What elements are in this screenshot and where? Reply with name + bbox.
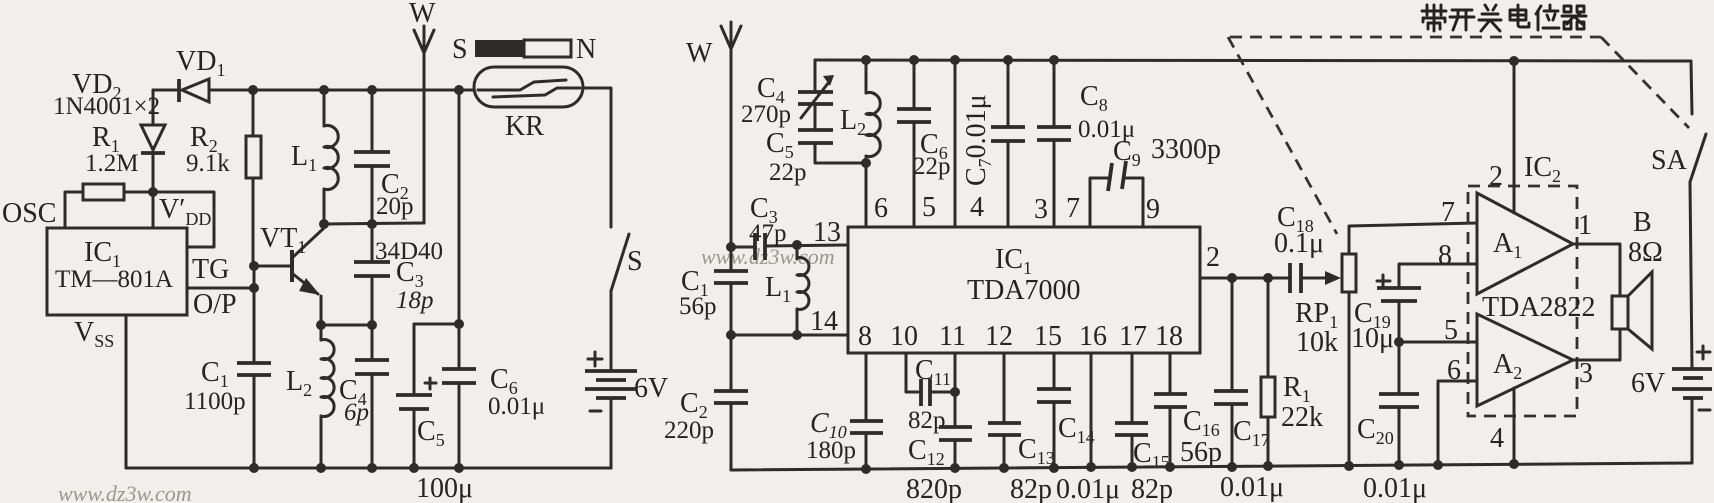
svg-text:0.01μ: 0.01μ (1056, 474, 1120, 503)
svg-text:22p: 22p (769, 159, 807, 186)
wire: ground rail (right circuit) (731, 463, 1692, 470)
svg-text:0.01μ: 0.01μ (488, 393, 545, 420)
svg-text:82p: 82p (908, 407, 946, 434)
svg-text:2: 2 (1206, 242, 1220, 273)
svg-text:8: 8 (858, 321, 872, 352)
wire: decoupling branch (414, 323, 459, 326)
junction tank bottom/pin6 (861, 158, 871, 168)
junction ground/C4 (367, 463, 377, 473)
svg-text:220p: 220p (664, 417, 714, 444)
capacitor C1 right (56p) (714, 247, 748, 335)
wire: pin 2 output wire (1200, 277, 1288, 280)
wire: pin 3 to speaker (1573, 329, 1620, 360)
junction collector/L1 (319, 219, 329, 229)
wire: collector tank wire (324, 223, 424, 224)
svg-text:11: 11 (939, 321, 966, 352)
junction rail/supply column (454, 85, 464, 95)
svg-text:5: 5 (922, 192, 936, 223)
svg-text:0.1μ: 0.1μ (1274, 228, 1324, 259)
junction ground/L2 (316, 463, 326, 473)
svg-text:4: 4 (1490, 423, 1504, 454)
svg-text:22k: 22k (1281, 402, 1323, 433)
wire: pin 6 wire (IC2) (1438, 381, 1477, 465)
svg-text:7: 7 (1441, 197, 1455, 228)
wire: KR to switch branch (583, 88, 611, 227)
junction pin2/R1 (1263, 273, 1273, 283)
svg-text:180p: 180p (806, 437, 856, 464)
junction ground/C6 (454, 463, 464, 473)
svg-text:12: 12 (985, 321, 1013, 352)
junction emitter/C3/C4 (367, 320, 377, 330)
diode VD2 (141, 90, 165, 192)
svg-text:TG: TG (192, 254, 229, 285)
inductor L1 (left) (324, 90, 338, 224)
junction ground/C1 (249, 463, 259, 473)
svg-text:8: 8 (1438, 240, 1452, 271)
capacitor C9 (3300p) loop pins 7-9 (1090, 161, 1143, 227)
svg-text:8Ω: 8Ω (1628, 237, 1663, 268)
junction ground/C5 (409, 463, 419, 473)
svg-text:6p: 6p (344, 399, 369, 426)
wire: VD2 branch top (153, 89, 178, 92)
svg-text:N: N (576, 34, 596, 65)
svg-text:10: 10 (890, 321, 918, 352)
svg-text:3300p: 3300p (1151, 134, 1221, 165)
svg-text:9: 9 (1146, 194, 1160, 225)
capacitor C16 (56p) (1154, 353, 1187, 466)
capacitor C12 (820p) (939, 353, 972, 468)
wire: ground rail (left circuit) (126, 467, 611, 470)
capacitor C2 (20p) (354, 90, 390, 224)
wire: pin 2 (IC2) from supply (1513, 61, 1516, 213)
svg-text:56p: 56p (679, 293, 717, 320)
junction ground/C12 (950, 463, 960, 473)
svg-text:4: 4 (970, 192, 984, 223)
junction tank/C6 (909, 55, 919, 65)
svg-text:S: S (627, 246, 643, 277)
capacitor C15 (82p) (1115, 353, 1148, 467)
capacitor C18 (0.1u) (1290, 263, 1341, 293)
wire: pin 14 wire (731, 334, 846, 337)
svg-text:3: 3 (1034, 194, 1048, 225)
svg-text:820p: 820p (906, 474, 962, 503)
potentiometer RP1 (10k) (1342, 223, 1477, 466)
svg-text:W: W (409, 0, 436, 29)
Chinese title: dai kai guan dian wei qi (1422, 5, 1586, 31)
wire: pin 6 wire (865, 163, 868, 227)
junction tank/L2 top (861, 55, 871, 65)
svg-text:16: 16 (1079, 321, 1107, 352)
diode VD1 (179, 79, 209, 102)
junction C11/pin11 (950, 387, 960, 397)
IC U1 TDA7000 box (848, 227, 1200, 353)
svg-text:TDA2822: TDA2822 (1482, 292, 1596, 323)
svg-text:B: B (1633, 207, 1652, 238)
svg-text:SA: SA (1651, 145, 1688, 176)
svg-text:14: 14 (810, 306, 838, 337)
capacitor C10 (180p) (850, 353, 883, 469)
junction decouple/supply column (454, 319, 464, 329)
capacitor C20 (0.01u) (1379, 342, 1419, 465)
junction output node (249, 283, 259, 293)
junction tank/pin4 (950, 55, 960, 65)
wire: node to VT1 base (254, 265, 291, 268)
svg-text:W: W (686, 38, 713, 69)
capacitor C5 (100u electrolytic) (396, 324, 436, 468)
svg-text:S: S (452, 34, 468, 65)
junction ground/C10 (861, 464, 871, 474)
svg-text:100μ: 100μ (416, 473, 473, 503)
svg-text:5: 5 (1444, 315, 1458, 346)
svg-text:270p: 270p (741, 101, 791, 128)
svg-text:47p: 47p (749, 220, 787, 247)
svg-text:6: 6 (874, 193, 888, 224)
switch SA (1690, 61, 1706, 368)
capacitor C2 right (220p) (714, 335, 748, 470)
svg-text:C70.01μ: C70.01μ (961, 94, 995, 186)
svg-text:82p: 82p (1010, 474, 1052, 503)
resistor R1 right (22k) (1261, 278, 1275, 466)
capacitor C6 right (22p) (897, 60, 931, 227)
svg-text:0.01μ: 0.01μ (1363, 473, 1427, 503)
junction ground/R1 right (1263, 461, 1273, 471)
svg-text:O/P: O/P (193, 289, 237, 320)
capacitor C4 right variable (270p) + C5 right (22p) (798, 60, 866, 163)
battery 6V (left) (585, 291, 637, 468)
capacitor C6 (0.01u left) (442, 90, 476, 468)
magnet S/N bar (475, 40, 571, 57)
svg-text:10μ: 10μ (1351, 323, 1394, 354)
svg-text:9.1k: 9.1k (186, 150, 230, 177)
speaker B (8 ohm) (1612, 272, 1652, 349)
wire: pin 16 ground wire (1090, 353, 1093, 467)
svg-text:3: 3 (1579, 358, 1593, 389)
battery 6V (right) (1672, 346, 1712, 463)
svg-text:1.2M: 1.2M (85, 150, 138, 177)
junction L1/pin14 wire (792, 330, 802, 340)
capacitor C17 (0.01u) (1214, 278, 1248, 467)
svg-text:10k: 10k (1296, 327, 1338, 358)
capacitor C3 right (47p) (731, 233, 846, 260)
svg-text:15: 15 (1034, 321, 1062, 352)
junction at VD2/R1/VDD (148, 187, 158, 197)
junction ground/pin4 IC2 (1509, 459, 1519, 469)
svg-text:18: 18 (1155, 321, 1183, 352)
junction rail/L1 (319, 85, 329, 95)
junction ground/C17 (1227, 462, 1237, 472)
switch S (611, 234, 629, 291)
inductor L2 (left) (321, 325, 334, 468)
wire: pin 4 wire (954, 60, 957, 227)
junction ground/C14 (1049, 463, 1059, 473)
junction base node (249, 261, 259, 271)
junction C1/pin14 (726, 330, 736, 340)
capacitor C1 (1100p) (237, 363, 271, 468)
wire: emitter rail (321, 324, 372, 327)
svg-text:0.01μ: 0.01μ (1220, 472, 1284, 503)
junction tank/C8 (1049, 55, 1059, 65)
wire: tank top rail (right) (815, 60, 1691, 61)
junction ground/C13 (999, 463, 1009, 473)
svg-text:18p: 18p (396, 287, 434, 314)
junction rail/R2 (248, 85, 258, 95)
svg-text:20p: 20p (376, 193, 414, 220)
junction tank/C7 (1003, 55, 1013, 65)
resistor R1 (65, 184, 153, 228)
svg-text:82p: 82p (1131, 474, 1173, 503)
resistor R2 (246, 90, 261, 266)
wire: node down to C1 (253, 266, 256, 362)
junction emitter/L2 (316, 320, 326, 330)
svg-text:56p: 56p (1180, 437, 1222, 468)
svg-text:TM—801A: TM—801A (55, 266, 173, 293)
capacitor C14 (0.01u) (1037, 353, 1071, 468)
capacitor C3 (18p) (354, 224, 390, 325)
svg-text:www.dz3w.com: www.dz3w.com (58, 481, 192, 503)
svg-text:6V: 6V (1631, 368, 1665, 399)
capacitor C7 (0.01u) (991, 60, 1025, 227)
svg-text:OSC: OSC (2, 198, 56, 229)
capacitor C4 (6p) (355, 325, 389, 468)
svg-text:6: 6 (1447, 355, 1461, 386)
svg-text:1N4001×2: 1N4001×2 (53, 93, 160, 120)
op-amp IC1 TM-801A box (47, 228, 187, 315)
transistor VT1 (290, 228, 324, 325)
inductor L1 (right) (797, 245, 809, 335)
capacitor C13 (82p) (988, 353, 1021, 468)
junction ground/C20 (1394, 460, 1404, 470)
svg-text:2: 2 (1489, 161, 1503, 192)
junction supply/pin2 IC2 (1509, 56, 1519, 66)
svg-text:6V: 6V (634, 373, 668, 404)
node VDD wire loop (153, 192, 214, 247)
IC U2 dashed box (1468, 186, 1577, 416)
junction ground/C16 (1165, 462, 1175, 472)
inductor L2 (right) (866, 60, 880, 163)
op-amp A1 (1477, 193, 1573, 294)
junction ground/RP1 (1344, 461, 1354, 471)
junction ground/pin16 (1086, 462, 1096, 472)
junction rail/C2 (367, 85, 377, 95)
junction antenna/C3/C1 (726, 242, 736, 252)
capacitor C19 (10u electrolytic) (1377, 264, 1477, 342)
svg-text:1: 1 (1578, 210, 1592, 241)
svg-text:17: 17 (1119, 321, 1147, 352)
junction ground/C15 (1127, 462, 1137, 472)
wire: pin 4 (IC2) to ground (1513, 388, 1516, 464)
svg-text:22p: 22p (913, 153, 951, 180)
antenna W (right) (721, 22, 741, 247)
junction tank/C2-C3 column (367, 219, 377, 229)
junction pin2/C17 (1227, 273, 1237, 283)
svg-text:TDA7000: TDA7000 (967, 275, 1081, 306)
junction L1/pin13 wire (792, 240, 802, 250)
capacitor C8 (0.01u) (1037, 60, 1071, 227)
svg-text:13: 13 (813, 217, 841, 248)
wire: IC output to node (188, 287, 254, 290)
junction C19/C20/pin5 (1394, 337, 1404, 347)
wire: top supply rail (left circuit) (210, 89, 474, 92)
reed relay KR (474, 67, 583, 107)
dashed callout potentiometer-with-switch (1228, 37, 1689, 234)
wire: VSS to ground (125, 315, 128, 468)
svg-text:7: 7 (1066, 193, 1080, 224)
capacitor C11 (82p) loop pins 10-11 (906, 353, 955, 406)
wire: pin 1 to speaker (1573, 244, 1620, 296)
svg-text:KR: KR (505, 111, 544, 142)
junction ground/pin6 IC2 (1433, 460, 1443, 470)
antenna W (left) (414, 26, 434, 223)
svg-text:1100p: 1100p (184, 388, 246, 415)
op-amp A2 (1477, 314, 1573, 406)
wire: pin 5 wire (1399, 341, 1477, 344)
